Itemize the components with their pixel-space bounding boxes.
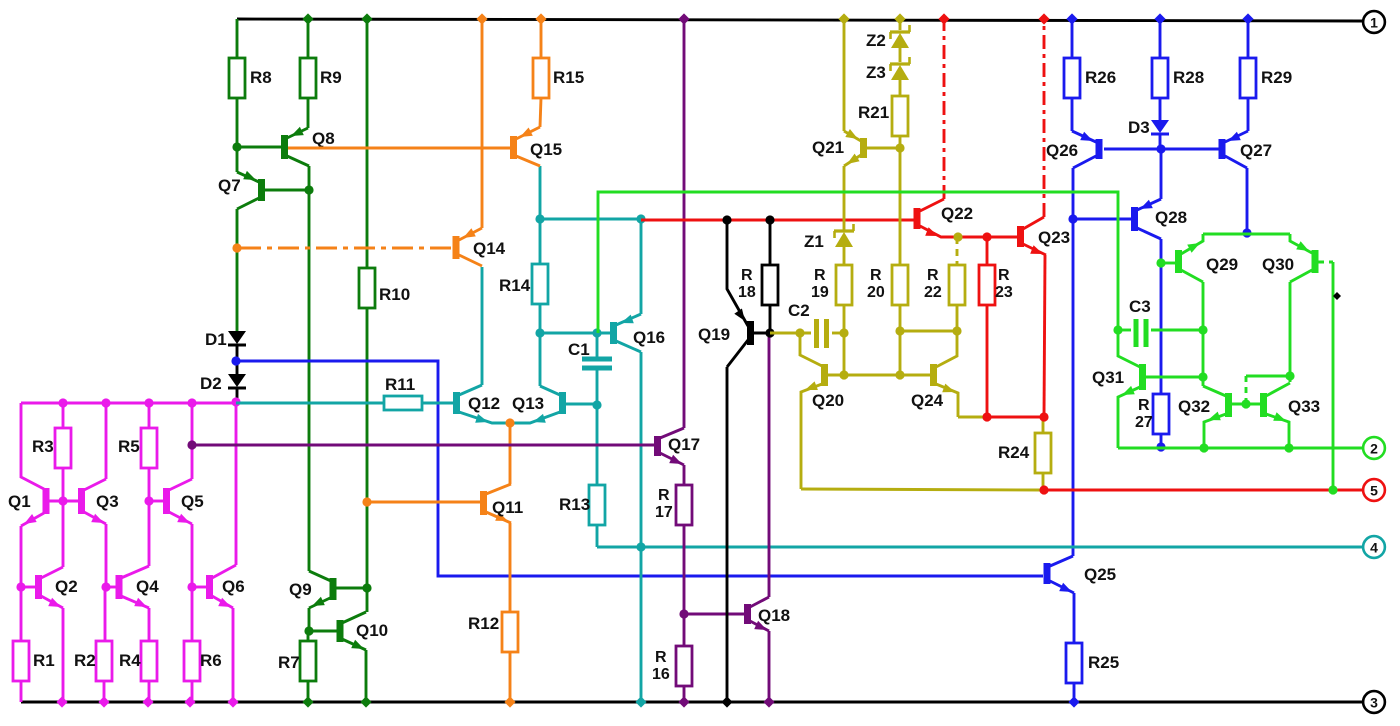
wire R17 top [683,465,686,485]
wire Q28 base link [1073,218,1132,221]
transistor Q9 [289,571,367,631]
svg-text:R: R [814,267,826,284]
wire R15 top [535,13,546,58]
node R24 top node [1039,412,1048,421]
node Q9 base [362,583,371,592]
wire Q11 collector up [509,423,512,484]
svg-text:R13: R13 [559,495,590,514]
wire Q29 collector column [1202,282,1205,386]
svg-text:R: R [927,267,939,284]
transistor Q1 [8,488,50,526]
svg-text:Q8: Q8 [312,129,335,148]
svg-text:R15: R15 [553,68,584,87]
svg-text:D1: D1 [205,330,227,349]
wire Z1-R19 [843,247,846,265]
wire Q27 collector down [1246,168,1249,233]
wire R10 bottom column [366,308,369,588]
wire Q7 emitter down [236,209,239,331]
svg-text:R2: R2 [74,651,96,670]
wire Q21 emitter column [838,13,849,131]
node C3 left [1113,325,1122,334]
node R14/C1/Q16 base [535,328,544,337]
svg-text:Q7: Q7 [218,176,241,195]
resistor R8 [229,58,272,98]
wire R29 bottom [1247,98,1250,131]
resistor R27 [1135,394,1169,434]
diode D3 [1128,118,1169,137]
wire R7 bottom [302,681,313,708]
resistor R11 [384,375,422,410]
svg-text:R: R [870,267,882,284]
wire R16 bottom [678,686,689,708]
wire input rail [21,402,236,405]
wire R11 to Q12 [422,402,454,405]
svg-text:Q18: Q18 [758,606,790,625]
resistor R15 [533,58,584,98]
svg-text:R12: R12 [468,614,499,633]
wire Z3-R21 [899,80,902,96]
wire R3-node [62,468,65,501]
svg-text:R3: R3 [32,437,54,456]
wire R27 bottom [1160,434,1163,447]
wire R2 top [104,587,107,641]
node Q5e/Q6b/R6 [187,582,196,591]
wire R26 top [1066,13,1077,58]
svg-text:Q14: Q14 [473,239,506,258]
resistor R21 [858,96,908,136]
transistor Q32 [1178,386,1261,448]
node R23/R24 tie [982,412,991,421]
wire R24 top stub [1042,417,1045,433]
svg-text:Q31: Q31 [1092,368,1124,387]
wire comp node A link [540,218,641,221]
transistor Q7 [218,147,309,209]
pin 1 (V+) [1363,11,1385,33]
wire pin 2 line [1118,447,1363,450]
wire Q28 emitter up [1160,149,1163,199]
transistor Q17 [654,428,700,465]
svg-text:Q13: Q13 [512,394,544,413]
svg-text:3: 3 [1370,695,1378,711]
wire R12 top [509,523,512,612]
transistor Q25 [1044,556,1117,593]
svg-text:Q16: Q16 [633,328,665,347]
transistor Q11 [480,484,523,523]
node inv input tap [231,356,240,365]
node Q3e/Q4b/R2 [101,582,110,591]
wire comp green link [598,192,1118,333]
node output node [1039,485,1048,494]
wire Q3 emitter down [105,524,108,587]
transistor Q6 [192,565,245,608]
svg-text:Q20: Q20 [812,391,844,410]
svg-text:R: R [998,267,1010,284]
svg-text:Q29: Q29 [1206,255,1238,274]
wire R20-R22 tie [900,330,957,333]
wire Q14 collector column [476,13,487,228]
wire R15 bottom [540,98,541,127]
wire Q23 emitter down [1044,255,1045,417]
diode D2 [200,374,246,393]
svg-text:1: 1 [1370,15,1378,31]
wire Q5 collector up [187,398,196,479]
resistor R2 [74,641,112,681]
svg-text:Q4: Q4 [136,577,159,596]
node Q7 base [304,185,313,194]
wire Q18 collector up [768,337,771,597]
wire Q10 emitter down [360,650,371,708]
wire Q19 emitter up [727,220,748,326]
node R22 emitter tap [953,232,962,241]
pin 2 [1363,437,1385,459]
wire R18 top link [769,220,772,265]
transistor Q19 [698,309,770,368]
wire Q24 collector up [936,331,957,367]
node R17/R16/Q18 base [679,609,688,618]
svg-text:20: 20 [867,284,885,301]
resistor R18 [738,265,778,305]
svg-text:18: 18 [738,284,756,301]
wire pin 4 line [597,546,1363,549]
wire R1 top [20,587,23,641]
capacitor C1 [568,333,612,405]
wire R22 top stub [956,237,959,265]
resistor R13 [559,485,605,525]
transistor Q26 [1046,131,1219,168]
node R3 top [58,398,67,407]
wire C2 right link [832,332,844,335]
transistor Q21 [812,129,900,166]
svg-text:R4: R4 [119,651,141,670]
node R5 top [144,398,153,407]
wire Q16 collector up [640,219,643,314]
wire Q22-Q23 base run [987,236,1018,239]
resistor R25 [1066,643,1119,683]
wire R25 top [1073,593,1076,643]
zener Z3 [866,57,910,82]
wire base lift (dashed) [1246,376,1290,404]
wire R24 bottom stub [1042,473,1045,490]
node Q9 emitter/R7/Q10 base [304,626,313,635]
svg-text:Q26: Q26 [1046,141,1078,160]
transistor Q15 [510,127,562,166]
svg-text:Q6: Q6 [222,577,245,596]
node D3 base join [1156,144,1165,153]
wire Q14-Q12 link [481,267,484,385]
zener Z1 [804,224,854,251]
wire comp to Q22 base (red) [641,219,914,222]
wire R1 bottom [20,681,23,702]
wire Q8 base link [236,146,282,149]
wire Q1 emitter down [20,526,23,587]
wire R9 top [302,13,313,58]
node Q19 emitter tap [722,215,731,224]
transistor Q27 [1219,131,1273,168]
svg-text:5: 5 [1370,483,1378,499]
svg-text:23: 23 [995,284,1013,301]
svg-text:Q32: Q32 [1178,397,1210,416]
wire Q3 collector up [101,398,110,479]
svg-text:Q2: Q2 [55,577,78,596]
node Q12/Q13 emitters [505,418,514,427]
wire Q29-Q30 rail [1203,233,1290,236]
transistor Q18 [684,597,790,631]
resistor R3 [32,403,71,468]
wire R13 bottom [596,525,599,547]
wire R28 bottom [1159,98,1162,120]
wire R19 bottom [843,305,846,334]
svg-text:R: R [1138,397,1150,414]
transistor Q16 [597,314,665,352]
svg-text:R: R [658,487,670,504]
wire R8 bottom [236,98,239,147]
wire Q13 collector up [539,333,542,386]
svg-text:Q1: Q1 [8,492,31,511]
svg-text:Q12: Q12 [468,394,500,413]
node pin4 junction [636,542,645,551]
resistor R16 [652,614,692,686]
svg-text:Q30: Q30 [1262,255,1294,274]
transistor Q33 [1260,383,1320,448]
wire Q23 collector (dash-dot) [1038,13,1049,217]
wire R6 bottom [184,681,195,708]
wire D1-D2 link [236,346,239,374]
svg-text:Z3: Z3 [866,63,886,82]
resistor R7 [278,631,316,681]
node C1 top [592,328,601,337]
wire Q25 collector column [1072,219,1075,556]
svg-text:R14: R14 [499,276,531,295]
wire R20 top column [899,148,902,265]
svg-text:R21: R21 [858,103,889,122]
transistor Q2 [21,567,78,608]
node Q1e/Q2b/R1 [16,582,25,591]
small mark [1333,292,1341,300]
wire Q30 base column [1332,262,1335,490]
capacitor C2 [788,301,827,348]
pin 5 [1363,479,1385,501]
node Q20 base join [839,370,848,379]
wire R5-node [148,468,151,501]
resistor R14 [499,264,548,304]
svg-text:R24: R24 [998,443,1030,462]
wire non-inv input line [192,444,655,447]
node Q32 emitter join [1199,443,1208,452]
transistor Q10 [337,612,389,650]
svg-text:Q27: Q27 [1240,141,1272,160]
wire Q7/Q9 column [308,190,311,571]
wire Z1 top [843,166,846,231]
transistor Q20 [800,333,931,489]
node C2/R19 join [839,328,848,337]
node output join [1328,485,1337,494]
svg-text:D3: D3 [1128,118,1150,137]
node Q21 base [895,143,904,152]
svg-text:R8: R8 [250,68,272,87]
transistor Q14 [453,228,506,266]
resistor R19 [811,265,852,305]
svg-text:Q3: Q3 [96,492,119,511]
wire Q20 emitter run [801,489,1043,490]
node Q11 base tap [362,497,371,506]
resistor R9 [300,58,342,98]
wire R6 top [191,587,194,641]
svg-text:Q10: Q10 [356,621,388,640]
svg-text:R5: R5 [118,437,140,456]
transistor Q22 [914,199,988,237]
wire R23-R24 run [987,416,1044,419]
node R5 bottom [144,496,153,505]
resistor R4 [119,641,157,681]
node Q33 emitter join [1284,443,1293,452]
wire Q18 emitter down [763,631,774,708]
wire Q1/Q3 base link [48,500,79,503]
wire Q10 collector link [366,588,369,612]
resistor R10 [359,268,410,308]
node Q16 collector junction [636,214,645,223]
node Q29 base tap [1156,258,1165,267]
wire Q17 collector column [678,13,689,428]
transistor Q24 [911,364,958,417]
resistor R17 [655,485,692,525]
svg-text:Q28: Q28 [1155,208,1187,227]
svg-text:Q24: Q24 [911,391,944,410]
wire Q11 base line [367,501,481,504]
resistor R23 [979,237,1013,305]
svg-text:R6: R6 [200,651,222,670]
svg-text:Z1: Z1 [804,232,824,251]
svg-text:Z2: Z2 [866,31,886,50]
wire R9 bottom [307,98,310,128]
wire D3 bottom stub [1159,135,1162,149]
wire R11 feed [236,402,384,405]
wire Q6 emitter down [227,608,238,708]
svg-text:Q19: Q19 [698,325,730,344]
resistor R6 [184,641,222,681]
transistor Q30 [1262,234,1333,282]
svg-text:27: 27 [1135,414,1153,431]
node C1 bottom / Q13 base [592,400,601,409]
node R20 base join [895,370,904,379]
node C3 right join [1198,325,1207,334]
wire Q14 base (dash-dot) [240,247,452,250]
wire C1 top link [540,332,611,335]
node D2 / input rail [231,397,240,406]
resistor R29 [1240,58,1292,98]
wire R2 bottom [98,681,109,708]
resistor R24 [998,433,1051,473]
transistor Q4 [106,566,159,608]
wire R28 top [1154,13,1165,58]
wire Z2-Z3 [899,48,902,62]
node Q27/Q29 join [1242,228,1251,237]
wire Z2 top [894,13,905,30]
node bias tap (orange) [232,243,241,252]
wire R21 bottom [899,136,902,148]
transistor Q28 [1131,199,1187,239]
capacitor C3 [1118,297,1203,347]
wire Q10 base link [309,630,338,633]
node R18 top tap [765,215,774,224]
svg-text:D2: D2 [200,374,222,393]
svg-text:R: R [655,649,667,666]
node Q20 collector tap [795,328,804,337]
wire Q16 emitter column [635,352,646,708]
wire R25 bottom [1068,683,1079,708]
wire Q4 emitter down [148,608,151,641]
resistor R5 [118,403,157,468]
node R23 top [982,232,991,241]
wire R20 bottom [899,305,902,375]
svg-text:R25: R25 [1088,653,1119,672]
wire Q26 collector down [1072,168,1075,219]
svg-text:19: 19 [811,284,829,301]
svg-text:2: 2 [1370,441,1378,457]
svg-text:Q5: Q5 [181,492,204,511]
wire Q30 collector down [1289,282,1292,382]
wire V+ rail (top) [237,19,1363,21]
node R27/pin2 join [1156,442,1165,451]
wire R23 bottom [986,305,989,417]
wire Q1 column [21,403,44,489]
transistor Q13 [510,386,597,423]
pin 4 [1363,536,1385,558]
wire Q15 emitter [539,166,542,219]
svg-text:Q25: Q25 [1084,565,1116,584]
wire output to pin 5 [1044,489,1363,492]
wire R13 top [596,405,599,485]
svg-text:R7: R7 [278,653,300,672]
svg-text:Q17: Q17 [668,435,700,454]
node R8/Q7/Q8 [232,142,241,151]
svg-text:Q15: Q15 [530,140,562,159]
svg-text:R26: R26 [1085,68,1116,87]
transistor Q29 [1161,234,1238,282]
node Q32/Q33 bases [1241,399,1250,408]
wire V- rail (bottom) [21,701,1363,704]
wire R10 top [361,13,372,268]
wire R4 bottom [142,681,153,708]
wire Q8-Q15 base line [288,147,511,150]
wire D2 bottom [236,389,239,403]
wire Q2 collector up [62,501,65,567]
wire Q6 collector up [235,403,238,565]
svg-text:Q33: Q33 [1288,397,1320,416]
wire R14 top [539,219,542,264]
svg-text:R9: R9 [320,68,342,87]
node Q28 base node [1068,214,1077,223]
transistor Q5 [149,479,204,524]
transistor Q12 [453,385,510,423]
wire Q2 emitter down [56,608,67,708]
node Q31 base join [1198,372,1207,381]
svg-text:17: 17 [655,504,673,521]
svg-text:Q23: Q23 [1038,228,1070,247]
svg-text:Q9: Q9 [289,580,312,599]
svg-text:Q11: Q11 [492,498,523,517]
resistor R20 [867,265,908,305]
node R20/R22 link a [895,326,904,335]
node R22 link [952,326,961,335]
transistor Q8 [281,127,335,190]
svg-text:Q21: Q21 [812,138,844,157]
node R3 bottom [58,496,67,505]
wire R26 bottom [1071,98,1074,131]
diode D1 [205,330,246,349]
wire Q24 emitter link [958,416,987,419]
svg-text:R1: R1 [33,651,55,670]
resistor R28 [1152,58,1204,98]
